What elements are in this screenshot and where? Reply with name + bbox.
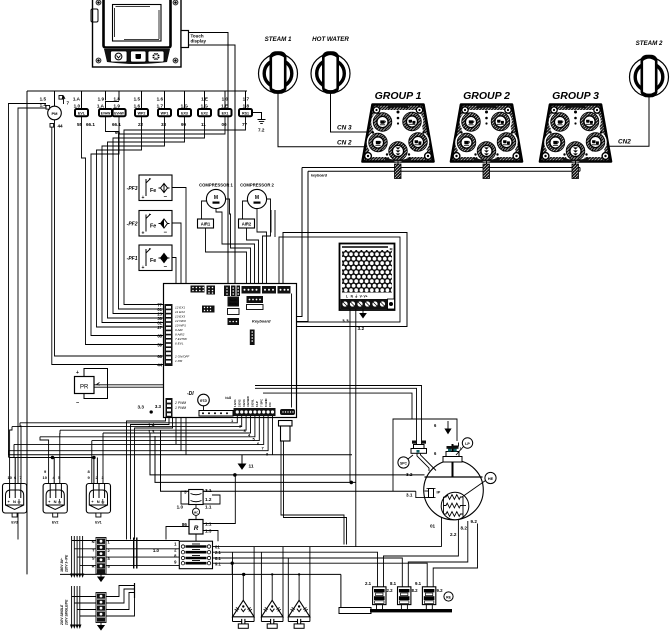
board left outside pin numbers (157, 303, 162, 368)
board left pin connector (165, 304, 173, 366)
svg-text:230V SINGLE/PE: 230V SINGLE/PE (65, 599, 69, 626)
svg-text:RTD: RTD (200, 399, 207, 403)
svg-text:Keyboard: Keyboard (252, 319, 271, 324)
expansion connector EX1 (219, 97, 232, 128)
wire keyboard bus down to board (288, 168, 308, 322)
wire staircase EX1 to board (119, 116, 226, 309)
svg-text:-DI: -DI (187, 391, 194, 397)
svg-text:77: 77 (242, 122, 248, 127)
svg-text:WP2: WP2 (138, 112, 146, 116)
svg-text:CN2: CN2 (618, 139, 631, 146)
wire PR to board (94, 385, 164, 387)
heating element HE (441, 492, 469, 520)
LP label (456, 438, 473, 455)
svg-text:Fe: Fe (150, 258, 156, 264)
svg-text:3.1: 3.1 (406, 493, 413, 498)
valve common wire (9, 456, 98, 483)
display unit (touch display) (91, 0, 181, 67)
svg-text:1.G: 1.G (181, 104, 189, 109)
neutral long wire (60, 573, 341, 608)
svg-text:7: 7 (67, 101, 70, 106)
svg-text:8.1: 8.1 (390, 581, 397, 586)
psu ground arrow (360, 309, 366, 318)
svg-text:5 EVL: 5 EVL (251, 399, 255, 407)
compressor 2 (240, 183, 274, 209)
board pin name labels (174, 306, 190, 364)
svg-text:8 GND: 8 GND (264, 398, 268, 407)
svg-text:PM: PM (52, 111, 59, 116)
mains supply wires single-phase (71, 586, 96, 628)
svg-text:1.0: 1.0 (153, 548, 160, 553)
svg-text:9 N: 9 N (268, 403, 272, 407)
svg-text:1.0: 1.0 (74, 104, 81, 109)
valve unit EV2 (43, 469, 68, 525)
svg-text:1.9: 1.9 (114, 104, 121, 109)
expansion connector EX2 (198, 97, 211, 128)
steam knob STEAM 1 (259, 36, 298, 93)
svg-text:230V SINGLE: 230V SINGLE (60, 604, 64, 626)
wire board bottom staircase to bottom bus (281, 441, 347, 545)
svg-text:EX2: EX2 (201, 112, 208, 116)
svg-text:3 EV3: 3 EV3 (242, 399, 246, 407)
wire PM to board (55, 120, 164, 356)
boiler wire labels (406, 472, 477, 537)
svg-text:9 AIR: 9 AIR (175, 328, 183, 332)
svg-text:3.3: 3.3 (138, 405, 145, 410)
svg-text:33: 33 (161, 122, 167, 127)
svg-text:11 EX2: 11 EX2 (175, 310, 185, 314)
svg-text:27: 27 (157, 325, 162, 330)
group 3 touchpad (540, 90, 611, 162)
svg-text:10 WP1: 10 WP1 (175, 324, 186, 328)
SSR bottom connections to neutral bar (377, 605, 433, 609)
svg-text:12 EX1: 12 EX1 (175, 306, 185, 310)
svg-text:Fe: Fe (150, 188, 156, 194)
mains terminal block 1 (92, 538, 111, 575)
contactor (179, 541, 212, 569)
ground symbol 11 (239, 455, 254, 470)
svg-text:+: + (142, 231, 145, 237)
svg-text:3.2: 3.2 (358, 326, 365, 332)
wire staircase WP2 to board (97, 116, 164, 327)
wires strip fan-out to left (9, 416, 273, 455)
svg-text:M: M (214, 195, 218, 201)
board top connectors J3 J4 J5 (224, 286, 240, 297)
svg-text:AIR1: AIR1 (201, 222, 211, 227)
group 1 touchpad (363, 90, 434, 162)
fan-out wire numbers (231, 418, 269, 457)
svg-text:2.2: 2.2 (387, 588, 394, 593)
steam knob STEAM 2 (630, 40, 669, 97)
svg-text:EVHW: EVHW (114, 112, 124, 116)
svg-text:-PF2: -PF2 (127, 222, 138, 228)
motor counter MC (192, 505, 199, 520)
svg-text:66: 66 (157, 354, 162, 359)
ground 7.2 (252, 113, 266, 133)
svg-text:№8: №8 (225, 396, 231, 400)
svg-text:3.2: 3.2 (406, 472, 413, 477)
solenoid connector EVL (73, 97, 88, 128)
svg-text:−: − (164, 265, 168, 271)
svg-text:11: 11 (201, 122, 206, 127)
svg-text:44: 44 (157, 363, 162, 368)
svg-text:+: + (142, 265, 145, 271)
svg-text:STEAM 1: STEAM 1 (265, 36, 292, 43)
temperature probe RTD (187, 391, 209, 411)
svg-text:1.7: 1.7 (243, 97, 250, 102)
svg-text:+: + (142, 195, 145, 201)
svg-text:keyboard: keyboard (311, 174, 328, 178)
board eeprom block (202, 306, 215, 313)
svg-text:EV1: EV1 (95, 521, 102, 525)
svg-text:8.2: 8.2 (412, 588, 419, 593)
svg-text:1.6: 1.6 (134, 104, 141, 109)
wire PM side to left drops (18, 108, 46, 540)
svg-text:7 SPC: 7 SPC (259, 399, 263, 407)
svg-text:1.3: 1.3 (205, 529, 212, 534)
svg-text:M: M (255, 195, 259, 201)
svg-text:HE: HE (488, 477, 494, 481)
svg-text:9.1: 9.1 (415, 581, 422, 586)
svg-text:−: − (76, 401, 79, 407)
svg-text:1.2: 1.2 (205, 497, 212, 502)
wire staircase WP1 to board (102, 116, 165, 322)
svg-text:GROUP 2: GROUP 2 (463, 90, 510, 102)
svg-text:R: R (194, 525, 199, 532)
wire drops to valve units (9, 423, 104, 484)
svg-text:1.3: 1.3 (148, 430, 155, 435)
keyboard bus (302, 162, 580, 178)
main control board (164, 284, 297, 418)
pressure sensor IP (416, 489, 441, 498)
solenoid connector EVHW x2 (86, 97, 126, 136)
svg-text:2.1: 2.1 (365, 581, 372, 586)
relay board terminal strip (225, 396, 275, 416)
svg-text:1 PWM: 1 PWM (175, 406, 186, 410)
safety probe SPC (411, 441, 436, 472)
wire CN3 hot water to group1 (331, 94, 369, 133)
svg-text:3.1: 3.1 (205, 488, 212, 493)
svg-text:1.8: 1.8 (243, 104, 250, 109)
ground arrow block2 (98, 623, 104, 630)
keyboard bus connector blocks (395, 164, 402, 179)
power supply enclosure wire loops (283, 233, 407, 327)
svg-text:66.1: 66.1 (86, 122, 95, 127)
wire left main drop (26, 91, 28, 574)
svg-text:8.1: 8.1 (215, 556, 221, 561)
svg-text:1.7: 1.7 (157, 104, 164, 109)
wire staircase RS1 to board pin 77 (9, 104, 246, 540)
level probe LP (443, 443, 463, 478)
probe guide box with flow arrow (393, 419, 457, 491)
svg-text:EVHW: EVHW (101, 112, 111, 116)
svg-text:WP1: WP1 (161, 112, 169, 116)
solid state relay SSR2 (390, 581, 418, 605)
svg-text:+: + (76, 370, 79, 376)
svg-text:−: − (164, 230, 168, 236)
mains label 3-phase (60, 554, 69, 573)
svg-text:7.2: 7.2 (258, 128, 265, 133)
svg-text:S: S (92, 556, 95, 561)
svg-text:-PF3: -PF3 (127, 186, 138, 192)
heater wires 01 2.2 8.2 9.2 down (384, 518, 478, 587)
flowmeter (177, 488, 220, 510)
solenoid connector WP2 (134, 97, 148, 128)
svg-text:9.1: 9.1 (215, 562, 221, 567)
svg-text:220V 3~/PE: 220V 3~/PE (65, 554, 69, 573)
svg-text:MC: MC (194, 510, 199, 514)
svg-text:GROUP 1: GROUP 1 (375, 90, 422, 102)
wires PF boxes to lower bus (172, 188, 186, 455)
power supply unit (340, 244, 395, 311)
neutral bus bar (339, 608, 371, 614)
svg-text:2 PWM: 2 PWM (174, 401, 186, 405)
mains terminal block 2 (96, 593, 106, 623)
svg-text:22: 22 (138, 122, 144, 127)
svg-text:10: 10 (43, 475, 48, 480)
wire staircase EX3 to board (108, 116, 185, 318)
svg-text:7 EVHW: 7 EVHW (175, 337, 188, 341)
svg-text:8.2: 8.2 (461, 526, 468, 531)
svg-text:1 PM: 1 PM (175, 359, 183, 363)
svg-text:1.A: 1.A (97, 104, 105, 109)
svg-text:6 LP: 6 LP (255, 401, 259, 407)
air valve AIR1 (198, 219, 214, 228)
svg-text:EV2: EV2 (52, 521, 59, 525)
svg-text:1.G: 1.G (201, 104, 209, 109)
svg-text:1.5: 1.5 (134, 97, 141, 102)
fuse holder (279, 421, 293, 442)
compressor 1 (199, 183, 233, 209)
svg-text:12 WP2: 12 WP2 (175, 319, 186, 323)
boiler (424, 460, 484, 520)
svg-text:10: 10 (8, 475, 13, 480)
contact breaker PF2 (127, 211, 172, 237)
air valve AIR2 (239, 219, 255, 228)
contact breaker PF1 (127, 245, 172, 271)
svg-text:1.5: 1.5 (40, 97, 47, 102)
svg-text:9.2: 9.2 (471, 519, 478, 524)
svg-text:1.E: 1.E (221, 104, 228, 109)
svg-text:Touch: Touch (229, 298, 237, 302)
top connector bus wire (27, 91, 247, 574)
svg-text:1.0: 1.0 (177, 505, 184, 510)
wires compressors and air valves to board top connector (202, 199, 276, 284)
svg-text:COMPRESSOR 1: COMPRESSOR 1 (199, 183, 233, 188)
svg-text:Fe: Fe (150, 224, 156, 230)
svg-text:01: 01 (430, 524, 436, 529)
expansion connector EX3 (178, 104, 191, 128)
relay R (166, 475, 235, 541)
pressure transducer PM (40, 96, 70, 129)
svg-text:LP: LP (465, 442, 470, 446)
hot water knob (311, 36, 350, 93)
svg-text:2 ON/OFF: 2 ON/OFF (174, 355, 190, 359)
svg-text:1.E: 1.E (201, 97, 208, 102)
svg-text:99: 99 (181, 122, 187, 127)
valve unit EV3 (3, 475, 27, 525)
svg-text:N: N (92, 539, 95, 544)
wire staircase EX2 to board (113, 116, 205, 313)
svg-text:2.2: 2.2 (450, 532, 457, 537)
svg-text:9.2: 9.2 (437, 588, 444, 593)
svg-text:8 AIR2: 8 AIR2 (175, 333, 185, 337)
svg-text:STEAM 2: STEAM 2 (636, 40, 663, 47)
long wires from board right to boiler probes (255, 386, 422, 445)
contact breaker PF3 (127, 175, 172, 201)
svg-text:EVL: EVL (78, 112, 86, 116)
valve unit EV1 (86, 469, 110, 525)
board bottom strip1 (199, 411, 233, 417)
svg-text:1.A: 1.A (73, 97, 81, 102)
svg-text:1.4: 1.4 (148, 423, 155, 428)
mains supply wires 3-phase (71, 536, 96, 577)
svg-text:−: − (164, 195, 168, 201)
wire staircase EVHW to board (106, 116, 120, 131)
svg-text:59: 59 (157, 343, 162, 348)
board touch display socket (228, 297, 240, 315)
SPC label (398, 455, 413, 468)
board dip block (250, 330, 255, 346)
wires block1 to contactor (106, 538, 179, 569)
svg-text:3.3: 3.3 (342, 319, 349, 325)
svg-text:380V 3N~: 380V 3N~ (60, 558, 64, 572)
wires block2 staircase (106, 583, 135, 616)
wires contactor to loads (213, 547, 442, 587)
svg-text:6 EVL: 6 EVL (175, 342, 184, 346)
svg-text:68: 68 (157, 334, 162, 339)
relay board aux connector (280, 409, 295, 415)
pressure regulator PR (75, 369, 108, 407)
svg-text:RS1: RS1 (242, 112, 249, 116)
svg-text:CN 2: CN 2 (337, 140, 352, 147)
motor capacitor triangle 2 (261, 547, 283, 629)
board small block (228, 318, 240, 325)
svg-text:PR: PR (80, 385, 89, 391)
contactor output labels (215, 545, 221, 567)
serial connector RS1 (239, 97, 252, 128)
svg-text:13 EX3: 13 EX3 (175, 315, 185, 319)
wire CN2 steam1 to group1 (278, 94, 367, 147)
board top connector J2 (207, 286, 216, 295)
svg-text:-PF1: -PF1 (127, 256, 138, 262)
svg-text:display: display (191, 39, 207, 44)
svg-text:1 EV1: 1 EV1 (233, 399, 237, 407)
relay label RE (444, 592, 453, 601)
svg-text:66.1: 66.1 (112, 122, 121, 127)
mains ground arrow block1 (98, 574, 104, 582)
svg-text:R: R (92, 564, 95, 569)
svg-text:1.9: 1.9 (98, 97, 105, 102)
svg-text:3: 3 (184, 490, 187, 495)
motor capacitor triangle 3 (288, 547, 310, 629)
svg-text:1.1: 1.1 (205, 522, 212, 527)
svg-text:1.8: 1.8 (114, 97, 121, 102)
board top big connector row (242, 286, 291, 294)
svg-text:display: display (229, 302, 238, 306)
wire touch display to board (189, 33, 236, 284)
svg-text:HOT WATER: HOT WATER (312, 36, 349, 43)
svg-text:COMPRESSOR 2: COMPRESSOR 2 (240, 183, 274, 188)
wire staircase EVL to board (82, 116, 164, 344)
touch display connector (181, 31, 207, 48)
psu output wires 3.3 / 3.2 (342, 309, 365, 547)
solid state relay SSR1 (365, 581, 393, 605)
svg-text:EX1: EX1 (222, 112, 229, 116)
board keyboard socket (247, 296, 272, 324)
svg-text:GROUP 3: GROUP 3 (552, 90, 599, 102)
svg-text:1.1: 1.1 (205, 505, 212, 510)
svg-text:3.3: 3.3 (155, 404, 162, 409)
svg-text:EV3: EV3 (11, 521, 18, 525)
svg-text:44: 44 (58, 124, 64, 129)
HE label (462, 472, 496, 497)
mains label single phase (60, 599, 69, 626)
solid state relay SSR3 (415, 581, 443, 605)
svg-text:2 EV2: 2 EV2 (237, 399, 241, 407)
wires board area down left labels (127, 405, 173, 540)
svg-text:L N ⏚ V- V+: L N ⏚ V- V+ (346, 294, 368, 299)
svg-text:RE: RE (446, 595, 451, 599)
svg-text:1.6: 1.6 (157, 97, 164, 102)
svg-text:00: 00 (222, 122, 228, 127)
svg-text:4 EVHW: 4 EVHW (246, 396, 250, 407)
board top connector J1 (191, 286, 205, 293)
svg-text:IP: IP (437, 490, 441, 495)
svg-text:AIR2: AIR2 (242, 222, 252, 227)
svg-text:11: 11 (249, 464, 254, 470)
motor capacitor triangle 1 (233, 547, 255, 629)
wire CN2 group3 to steam2 (608, 97, 649, 147)
svg-text:EX3: EX3 (181, 112, 188, 116)
svg-text:CN 3: CN 3 (337, 125, 352, 132)
solenoid connector WP1 (157, 97, 171, 128)
board bottom pwm connector (155, 398, 186, 417)
group 2 touchpad (451, 90, 522, 162)
svg-text:1.0: 1.0 (222, 97, 229, 102)
bottom long buses (9, 430, 425, 491)
svg-text:SPC: SPC (400, 462, 408, 466)
